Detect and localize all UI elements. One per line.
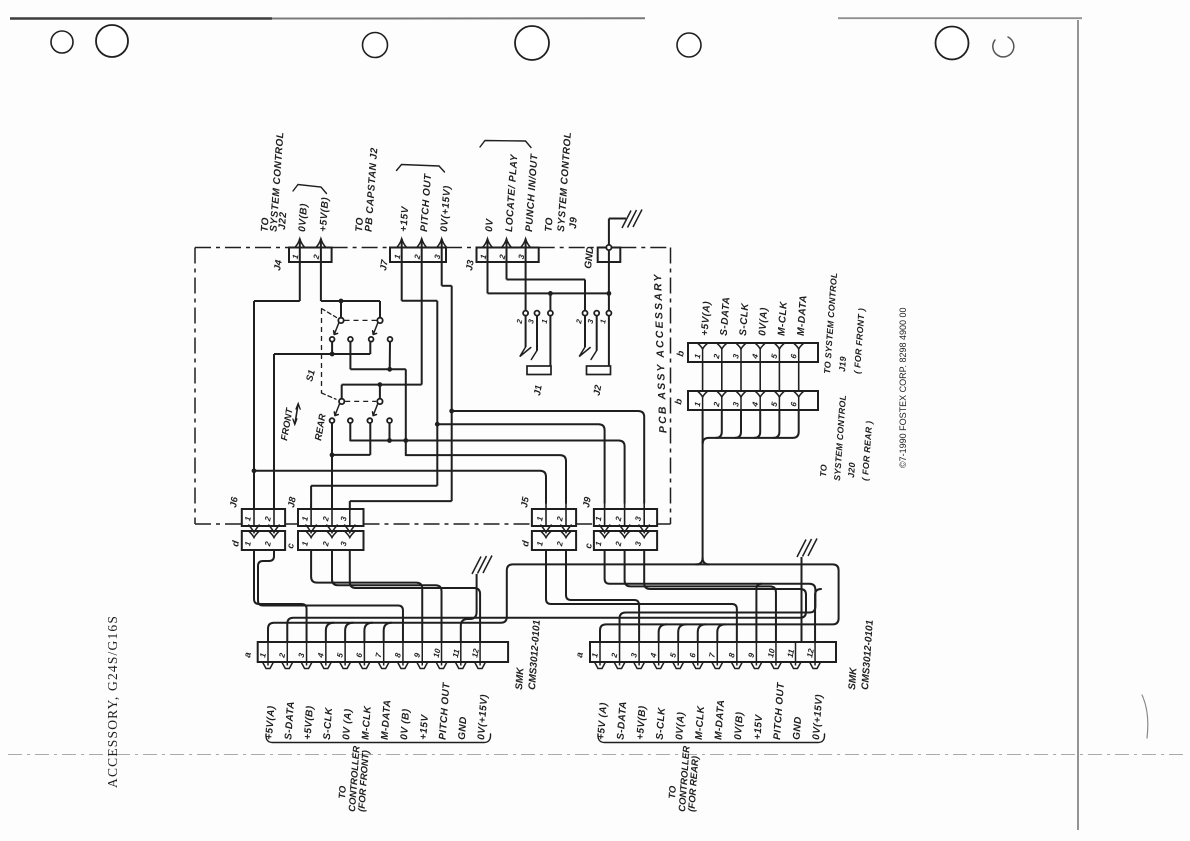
label FRONT bbox=[279, 406, 296, 441]
svg-text:b: b bbox=[673, 398, 685, 406]
connector J9 bbox=[594, 503, 657, 550]
wire J3-2 right bbox=[507, 279, 586, 281]
label TO SYSTEM CONTROL J19 (FOR FRONT) bbox=[822, 272, 867, 374]
svg-text:M-DATA: M-DATA bbox=[380, 699, 394, 740]
svg-text:GND: GND bbox=[583, 246, 596, 269]
wire J7-1 vertical bbox=[436, 301, 438, 486]
svg-text:2: 2 bbox=[712, 401, 722, 409]
svg-text:FRONT: FRONT bbox=[279, 406, 296, 441]
switch S1a wiper L bbox=[334, 323, 339, 335]
svg-text:1: 1 bbox=[258, 652, 268, 659]
label 0V bbox=[484, 217, 496, 232]
node 0V/GND junction bbox=[607, 291, 612, 296]
wire S1a throw2R down bbox=[389, 342, 391, 370]
wire J9-c2 to rear a10 bbox=[625, 550, 776, 642]
bracket over J7 labels bbox=[397, 165, 445, 173]
svg-text:a: a bbox=[574, 651, 586, 658]
svg-text:J20: J20 bbox=[846, 462, 857, 478]
svg-text:d: d bbox=[230, 540, 242, 548]
svg-text:3: 3 bbox=[633, 515, 643, 522]
wire GND to ground bbox=[609, 219, 626, 246]
switch S1a common L bbox=[338, 318, 343, 323]
svg-text:J1: J1 bbox=[532, 384, 545, 396]
labels connector a (rear) signals bbox=[596, 682, 825, 741]
svg-text:TO: TO bbox=[818, 464, 829, 477]
connector GND pad bbox=[598, 248, 621, 263]
brace under rear labels bbox=[598, 734, 825, 743]
jack J1 sleeve bbox=[527, 366, 551, 375]
page top edge line bbox=[10, 17, 1082, 20]
jack J2 pin 1 bbox=[606, 311, 611, 316]
label J8 bbox=[286, 495, 299, 508]
svg-text:1: 1 bbox=[300, 540, 310, 547]
svg-text:0V(A): 0V(A) bbox=[674, 711, 687, 740]
label J3 bbox=[464, 258, 477, 271]
switch S1b throw 2L bbox=[367, 418, 372, 423]
svg-text:3: 3 bbox=[339, 515, 349, 522]
svg-text:4: 4 bbox=[750, 401, 760, 409]
jack J1 pin 1 bbox=[548, 311, 553, 316]
node J4-1/J6-1 junction bbox=[252, 468, 257, 473]
jack J2 pin numbers bbox=[574, 318, 608, 326]
svg-text:2: 2 bbox=[555, 515, 565, 523]
svg-text:9: 9 bbox=[412, 652, 422, 659]
svg-text:S1: S1 bbox=[304, 369, 318, 383]
svg-text:J19: J19 bbox=[837, 356, 848, 372]
wire c3 to a12 bbox=[350, 550, 480, 642]
labels b connector signals bbox=[700, 295, 810, 337]
wire J5-d2 to rear a3 bbox=[566, 550, 639, 642]
label b (J20) bbox=[673, 398, 685, 406]
svg-text:+5V(B): +5V(B) bbox=[303, 705, 316, 740]
wire to S1a common L bbox=[340, 301, 342, 318]
svg-text:GND: GND bbox=[457, 716, 470, 740]
svg-text:S-DATA: S-DATA bbox=[616, 701, 630, 740]
wires b1-b2 pins bbox=[703, 362, 799, 391]
svg-text:PITCH OUT: PITCH OUT bbox=[772, 682, 787, 741]
binder hole (partial) bbox=[993, 37, 1014, 57]
svg-text:2: 2 bbox=[555, 540, 565, 548]
wire to J2-2 bbox=[584, 280, 586, 311]
svg-text:1: 1 bbox=[598, 318, 608, 324]
wire 0V(+15V) to J9-3 bbox=[452, 411, 645, 503]
svg-text:1: 1 bbox=[693, 401, 703, 408]
binder hole bbox=[96, 25, 128, 57]
wire to S1a common R bbox=[379, 301, 381, 318]
wire J7-1 down bbox=[401, 239, 403, 301]
svg-text:0V: 0V bbox=[484, 217, 496, 232]
svg-text:+5V(A): +5V(A) bbox=[700, 300, 713, 336]
jack J2 pin 3 bbox=[594, 311, 599, 316]
wire c2 to a10 bbox=[332, 550, 442, 642]
svg-text:0V (A): 0V (A) bbox=[341, 708, 354, 740]
labels connector a (front) signals bbox=[264, 682, 490, 741]
svg-text:d: d bbox=[520, 540, 532, 548]
label +15V bbox=[399, 205, 412, 232]
svg-text:3: 3 bbox=[297, 652, 307, 659]
wire S1a throw1R down bbox=[349, 342, 351, 370]
svg-text:REAR: REAR bbox=[313, 413, 329, 442]
svg-text:3: 3 bbox=[629, 652, 639, 659]
switch S1a throw 2R bbox=[388, 337, 393, 342]
svg-text:J7: J7 bbox=[378, 258, 391, 271]
svg-text:M-DATA: M-DATA bbox=[796, 295, 810, 337]
wire J7-3 vertical bbox=[451, 286, 453, 501]
switch S1a common R bbox=[377, 318, 382, 323]
svg-text:+15V: +15V bbox=[399, 205, 412, 232]
svg-text:6: 6 bbox=[688, 652, 698, 659]
svg-text:+15V: +15V bbox=[418, 713, 431, 740]
wire S1b throw1R down bbox=[349, 423, 351, 441]
wire b2 bundle merge bbox=[696, 558, 709, 565]
jack J2 sleeve bbox=[587, 366, 611, 375]
svg-text:PITCH OUT: PITCH OUT bbox=[419, 173, 434, 232]
wires bus drops a4-a7 (front) bbox=[326, 623, 392, 642]
svg-text:J3: J3 bbox=[464, 258, 477, 271]
switch S1b wiper R bbox=[373, 404, 378, 416]
svg-text:S-DATA: S-DATA bbox=[283, 701, 297, 740]
wire J4-1 down bbox=[299, 239, 301, 301]
jack J1 pin numbers bbox=[514, 318, 549, 326]
svg-text:PCB ASSY ACCESSARY: PCB ASSY ACCESSARY bbox=[652, 272, 670, 433]
connector a (front) bbox=[258, 642, 508, 669]
label TO CONTROLLER (FOR FRONT) bbox=[337, 745, 372, 812]
svg-text:4: 4 bbox=[750, 353, 760, 361]
svg-text:11: 11 bbox=[786, 648, 797, 659]
wire J4-2 down bbox=[320, 239, 322, 301]
svg-text:7: 7 bbox=[374, 652, 384, 659]
wire b2 bundle bbox=[703, 410, 799, 558]
label J2 bbox=[592, 383, 605, 396]
switch S1b throw 2R bbox=[387, 418, 392, 423]
node S1a feed junction bbox=[339, 299, 344, 304]
node S1a tie junction bbox=[330, 352, 335, 357]
jack J1 contacts bbox=[520, 316, 537, 360]
binder hole bbox=[51, 31, 73, 53]
svg-text:1: 1 bbox=[535, 515, 545, 522]
node 0V/J1 junction bbox=[548, 291, 553, 296]
connector J5 bbox=[532, 503, 576, 550]
wire J3-3 to J1-2 bbox=[525, 239, 527, 311]
label J1 bbox=[532, 384, 545, 396]
wire c1 to a9 bbox=[311, 550, 422, 642]
svg-text:0V(+15V): 0V(+15V) bbox=[439, 185, 453, 232]
svg-text:8: 8 bbox=[727, 652, 737, 659]
jack J1 pin 3 bbox=[535, 311, 540, 316]
wire J7-1 right bbox=[402, 300, 438, 302]
svg-text:5: 5 bbox=[668, 652, 678, 659]
label J5 bbox=[519, 495, 532, 508]
svg-text:0V(B): 0V(B) bbox=[733, 711, 746, 740]
svg-text:( FOR FRONT ): ( FOR FRONT ) bbox=[852, 308, 867, 375]
wire to J1 tip bbox=[549, 293, 551, 310]
label TO SYSTEM CONTROL J9 bbox=[544, 131, 580, 232]
bracket over J4 labels bbox=[293, 185, 327, 194]
wire J1 pin1 to sleeve bbox=[549, 316, 551, 366]
wire J7-3 right bbox=[442, 285, 452, 287]
wire S1a throws-L tie bbox=[274, 342, 370, 354]
wire d2 to a8 bbox=[258, 550, 403, 642]
wire S1b throwsR run to J9-2 bbox=[350, 441, 624, 504]
svg-text:M-CLK: M-CLK bbox=[776, 301, 789, 337]
svg-text:TO SYSTEM CONTROL: TO SYSTEM CONTROL bbox=[822, 272, 839, 374]
ground (top) bbox=[622, 210, 642, 229]
connector J6 bbox=[242, 503, 285, 550]
connector a (rear) bbox=[590, 642, 836, 669]
svg-text:M-CLK: M-CLK bbox=[694, 705, 707, 740]
PCB boundary left edge bbox=[194, 248, 196, 525]
svg-text:J4: J4 bbox=[272, 258, 285, 271]
svg-text:SMK: SMK bbox=[847, 666, 860, 690]
switch S1a throw 1L bbox=[330, 337, 335, 342]
wire return to rear a2 bbox=[620, 602, 816, 643]
svg-text:6: 6 bbox=[355, 652, 365, 659]
node S1b feed junction bbox=[378, 382, 383, 387]
svg-text:11: 11 bbox=[451, 648, 462, 659]
svg-text:2: 2 bbox=[712, 353, 722, 361]
svg-text:S-CLK: S-CLK bbox=[738, 302, 751, 336]
svg-text:SYSTEM CONTROL: SYSTEM CONTROL bbox=[832, 394, 848, 481]
node S1b tie junction bbox=[330, 453, 335, 458]
svg-text:b: b bbox=[675, 350, 687, 358]
label S1 bbox=[304, 369, 318, 383]
svg-text:+15V: +15V bbox=[752, 713, 765, 740]
svg-text:1: 1 bbox=[594, 540, 604, 547]
binder hole bbox=[363, 33, 388, 58]
svg-text:2: 2 bbox=[614, 540, 624, 548]
wire J9-c1 to rear a9 bbox=[605, 550, 816, 642]
svg-text:2: 2 bbox=[263, 515, 273, 523]
svg-text:3: 3 bbox=[586, 318, 596, 325]
svg-text:J9: J9 bbox=[568, 216, 580, 229]
label TO SYSTEM CONTROL J20 (FOR REAR) bbox=[818, 394, 874, 481]
svg-text:4: 4 bbox=[649, 652, 659, 660]
label J7 bbox=[378, 258, 391, 271]
connector J3 bbox=[477, 239, 539, 262]
svg-text:S-CLK: S-CLK bbox=[322, 707, 335, 741]
svg-text:S-CLK: S-CLK bbox=[655, 707, 668, 741]
label PCB ASSY ACCESSARY bbox=[652, 272, 670, 433]
page right edge line bbox=[1077, 20, 1079, 830]
svg-text:J8: J8 bbox=[286, 495, 299, 508]
svg-text:2: 2 bbox=[321, 515, 331, 523]
svg-text:GND: GND bbox=[792, 716, 805, 740]
switch S1b wiper L bbox=[334, 404, 339, 416]
svg-text:1: 1 bbox=[243, 515, 253, 522]
svg-text:2: 2 bbox=[263, 540, 273, 548]
ground (rear) bbox=[797, 539, 817, 558]
wire second bus bbox=[287, 595, 806, 643]
label SMK CMS3012-0101 (front) bbox=[514, 619, 543, 690]
label TO CONTROLLER (FOR REAR) bbox=[667, 745, 701, 812]
svg-text:2: 2 bbox=[609, 652, 619, 660]
svg-text:5: 5 bbox=[770, 353, 780, 360]
label 0V(B) bbox=[297, 203, 310, 232]
wire to S1b common R bbox=[379, 385, 381, 399]
wire S1b throws-L tie bbox=[332, 423, 370, 455]
svg-text:4: 4 bbox=[316, 652, 326, 660]
switch S1b common L bbox=[339, 399, 344, 404]
FRONT/REAR arrow bbox=[293, 404, 300, 425]
title ACCESSORY, G24S/G16S bbox=[105, 615, 120, 788]
PCB boundary right edge bbox=[670, 248, 672, 525]
label LOCATE/PLAY bbox=[504, 153, 520, 232]
wire J4-1 left run bbox=[254, 300, 300, 302]
svg-text:LOCATE/ PLAY: LOCATE/ PLAY bbox=[504, 153, 520, 232]
svg-text:0V (B): 0V (B) bbox=[399, 708, 412, 740]
label GND bbox=[583, 246, 596, 269]
wire +15V to J8-1 bbox=[311, 486, 437, 509]
GND pin node bbox=[606, 245, 611, 250]
label TO PB CAPSTAN J2 bbox=[354, 147, 380, 232]
wire 0V run bbox=[488, 292, 609, 294]
wire J5-d1 to rear a8 bbox=[546, 550, 737, 642]
wire S1b tie to J8-2 bbox=[331, 455, 333, 509]
label 0V(+15V) bbox=[439, 185, 453, 232]
wire J2 pin1 to sleeve bbox=[608, 316, 610, 366]
svg-text:5: 5 bbox=[335, 652, 345, 659]
svg-text:J9: J9 bbox=[581, 495, 594, 508]
label J4 bbox=[272, 258, 285, 271]
connector J4 bbox=[289, 239, 332, 262]
svg-text:ACCESSORY, G24S/G16S: ACCESSORY, G24S/G16S bbox=[105, 615, 120, 788]
wire ground to a11 bbox=[461, 574, 477, 642]
svg-text:6: 6 bbox=[789, 353, 799, 360]
wire d1 to a3 bbox=[254, 550, 307, 642]
brace under front labels bbox=[266, 734, 491, 743]
page bottom dash-dot line bbox=[8, 754, 1188, 756]
label SMK CMS3012-0101 (rear) bbox=[847, 619, 876, 690]
svg-text:2: 2 bbox=[514, 318, 524, 326]
svg-text:7: 7 bbox=[707, 652, 717, 659]
label c (J8) bbox=[285, 542, 297, 550]
svg-text:3: 3 bbox=[633, 540, 643, 547]
PCB boundary top edge bbox=[195, 247, 671, 249]
wire +15V to J9-1 bbox=[437, 424, 604, 503]
jack J1 pin 2 bbox=[523, 311, 528, 316]
wire ground to rear a11 bbox=[801, 557, 803, 642]
binder hole bbox=[677, 33, 701, 57]
label PITCH OUT bbox=[419, 173, 434, 232]
wire J3-1 down bbox=[487, 239, 489, 294]
switch S1b throw 1R bbox=[348, 418, 353, 423]
svg-text:9: 9 bbox=[747, 652, 757, 659]
svg-text:1: 1 bbox=[540, 318, 550, 324]
switch S1b common R bbox=[377, 399, 382, 404]
svg-text:3: 3 bbox=[731, 401, 741, 408]
wire S1b feed bbox=[342, 384, 422, 386]
svg-text:+5V(B): +5V(B) bbox=[635, 705, 648, 740]
wire GND drop bbox=[608, 250, 610, 310]
label c (J9) bbox=[583, 542, 595, 550]
label b (J19) bbox=[675, 350, 687, 358]
svg-text:1: 1 bbox=[693, 353, 703, 360]
label +5V(B) bbox=[318, 196, 331, 232]
connector J7 bbox=[390, 239, 447, 262]
svg-text:2: 2 bbox=[277, 652, 287, 660]
wire S1a tie to J6-2 bbox=[273, 354, 275, 509]
PCB boundary bottom edge bbox=[195, 523, 671, 525]
svg-text:CMS3012-0101: CMS3012-0101 bbox=[860, 619, 876, 690]
svg-text:0V(A): 0V(A) bbox=[757, 307, 770, 336]
connector J8 bbox=[298, 503, 364, 550]
svg-text:S-DATA: S-DATA bbox=[719, 296, 733, 336]
svg-text:©7-1990 FOSTEX CORP. 8298 4900: ©7-1990 FOSTEX CORP. 8298 4900 00 bbox=[898, 307, 908, 468]
wire S1a throwsR run bbox=[350, 368, 405, 370]
svg-text:J6: J6 bbox=[228, 495, 241, 508]
svg-text:0V(+15V): 0V(+15V) bbox=[476, 694, 490, 741]
svg-text:CMS3012-0101: CMS3012-0101 bbox=[527, 619, 543, 690]
wire J4-1 drop to J6-1 bbox=[253, 301, 255, 509]
binder hole bbox=[936, 27, 969, 60]
wires bus drops a4-a7 (rear) bbox=[659, 624, 726, 642]
label a (rear) bbox=[574, 651, 586, 658]
copyright line bbox=[898, 307, 908, 468]
svg-text:3: 3 bbox=[731, 353, 741, 360]
label TO SYSTEM CONTROL J22 bbox=[260, 131, 290, 232]
wire J7-3 down bbox=[441, 239, 443, 286]
node J7-3 branch bbox=[449, 409, 454, 414]
svg-text:PB CAPSTAN J2: PB CAPSTAN J2 bbox=[364, 147, 381, 232]
wire S1a feed bbox=[321, 300, 380, 302]
label J6 bbox=[228, 495, 241, 508]
svg-text:5: 5 bbox=[770, 401, 780, 408]
svg-text:+5V(B): +5V(B) bbox=[318, 196, 331, 232]
svg-text:TO: TO bbox=[544, 217, 556, 232]
node S1a throwsR junction bbox=[387, 367, 392, 372]
svg-text:J5: J5 bbox=[519, 495, 532, 508]
ground (front) bbox=[472, 556, 492, 575]
svg-text:PITCH OUT: PITCH OUT bbox=[438, 682, 453, 741]
wire throwsR to J5-2 bbox=[406, 455, 566, 503]
svg-text:M-DATA: M-DATA bbox=[713, 699, 727, 740]
switch S1a wiper R bbox=[373, 323, 378, 335]
connector b (J20) bbox=[688, 391, 818, 410]
node J7-1 branch bbox=[435, 422, 440, 427]
svg-text:8: 8 bbox=[393, 652, 403, 659]
label d (J5) bbox=[520, 540, 532, 548]
switch S1b throw 1L bbox=[330, 418, 335, 423]
wire J3-2 down bbox=[506, 239, 508, 280]
svg-text:1: 1 bbox=[590, 652, 600, 659]
wire signal bus U bbox=[268, 564, 839, 642]
jack J2 contacts bbox=[579, 316, 597, 360]
svg-text:6: 6 bbox=[789, 401, 799, 408]
node throws joint bbox=[403, 438, 408, 443]
svg-text:J2: J2 bbox=[592, 383, 605, 396]
svg-text:PUNCH IN/OUT: PUNCH IN/OUT bbox=[524, 153, 540, 232]
svg-text:3: 3 bbox=[339, 540, 349, 547]
S1b coupling dash bbox=[345, 400, 376, 402]
svg-text:0V(+15V): 0V(+15V) bbox=[811, 694, 825, 741]
switch S1a throw 1R bbox=[348, 337, 353, 342]
svg-text:1: 1 bbox=[300, 515, 310, 522]
svg-text:0V(B): 0V(B) bbox=[297, 203, 310, 232]
node S1b throwsR junction bbox=[387, 438, 392, 443]
binder hole bbox=[515, 26, 549, 60]
S1 coupling dashes bbox=[322, 309, 377, 400]
wire J9-c3 to rear a12 bbox=[644, 550, 821, 642]
wire bus 0V(B) to J5-1 bbox=[254, 471, 546, 503]
svg-text:3: 3 bbox=[526, 318, 536, 325]
wire S1b throw2R down bbox=[389, 423, 391, 441]
label REAR bbox=[313, 413, 329, 442]
wire throwsR vertical bbox=[405, 369, 407, 455]
switch S1a throw 2L bbox=[369, 337, 374, 342]
svg-text:2: 2 bbox=[321, 540, 331, 548]
svg-text:J22: J22 bbox=[277, 211, 289, 230]
wire to S1b common L bbox=[341, 385, 343, 399]
